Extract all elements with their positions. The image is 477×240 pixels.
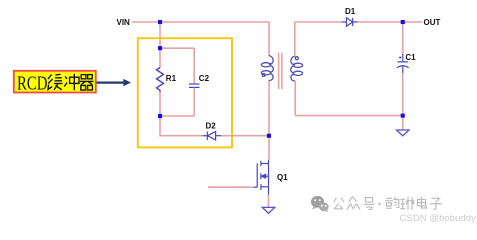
wire secondary bottom horizontal [295, 115, 403, 117]
hanzi 冲 (drawn strokes) [64, 74, 79, 90]
wire secondary top vertical [294, 22, 296, 56]
diode D2 [203, 131, 222, 140]
watermark wechat icon [311, 196, 329, 212]
transformer primary winding [261, 56, 273, 81]
transistor Q1 (N-MOSFET) [253, 160, 268, 195]
svg-text:D2: D2 [206, 121, 217, 130]
hanzi 器 (drawn strokes) [80, 75, 94, 90]
junction node switch [267, 134, 271, 138]
resistor R1 [157, 68, 164, 93]
wire primary vertical down to winding [268, 22, 270, 56]
capacitor C2 [189, 84, 200, 87]
svg-text:D1: D1 [345, 7, 356, 16]
wire D2 to switch node [221, 135, 269, 137]
svg-text:C1: C1 [405, 53, 416, 62]
wire R1 top lead vertical [159, 48, 161, 68]
wire down from RC bottom [159, 116, 161, 136]
wire VIN horizontal to primary [132, 21, 269, 23]
watermark hanzi 韵 [385, 197, 399, 208]
transformer secondary winding [291, 56, 303, 81]
watermark middot [378, 203, 380, 205]
junction node bottom of RC [158, 114, 162, 118]
wire C1 bottom vertical [402, 73, 404, 116]
svg-text:VIN: VIN [117, 18, 131, 27]
junction node top of RC [158, 46, 162, 50]
wire primary winding bottom down to drain [268, 81, 270, 161]
svg-text:R1: R1 [166, 74, 177, 83]
capacitor C1 [397, 54, 409, 73]
wire R1 bottom lead [159, 92, 161, 116]
diode D1 [342, 18, 358, 26]
transformer core bars [278, 53, 280, 89]
wire snubber tap vertical [159, 22, 161, 48]
wire bottom horizontal RC join [160, 115, 194, 117]
wire to output ground [402, 116, 404, 130]
wire top horizontal to C2 branch [160, 47, 194, 49]
wire C2 top vertical lead [193, 48, 195, 83]
wire secondary bottom vertical [294, 81, 296, 116]
ground (output side) [397, 130, 409, 136]
svg-text:OUT: OUT [424, 18, 441, 27]
wire gate stub [208, 186, 253, 188]
watermark hanzi 公 [334, 198, 344, 209]
wire C1 top vertical [402, 22, 404, 54]
junction node secondary ground [401, 114, 405, 118]
callout label box RCD [14, 71, 96, 93]
junction node OUT [401, 20, 405, 24]
hanzi 缓 (drawn strokes) [48, 74, 63, 90]
ground (source side) [262, 207, 274, 213]
callout arrow [97, 79, 131, 86]
junction dot on VIN line [158, 20, 162, 24]
watermark hanzi 琳 [400, 197, 414, 210]
wire horizontal to D2 [159, 135, 202, 137]
wire C2 bottom vertical lead [193, 88, 195, 116]
svg-text:CSDN @bobuddy: CSDN @bobuddy [400, 213, 477, 224]
highlight box (yellow RCD snubber outline) [138, 38, 232, 147]
wire secondary top horizontal to D1 [295, 21, 342, 23]
svg-text:RCD: RCD [17, 73, 48, 95]
svg-text:Q1: Q1 [277, 173, 288, 182]
watermark hanzi 众 [347, 197, 360, 210]
wire D1 to OUT node [358, 21, 423, 23]
wire source to ground [268, 195, 270, 208]
watermark hanzi 电 [418, 197, 427, 208]
svg-text:C2: C2 [199, 74, 210, 83]
watermark hanzi 号 [364, 198, 375, 210]
watermark hanzi 子 [430, 198, 442, 209]
